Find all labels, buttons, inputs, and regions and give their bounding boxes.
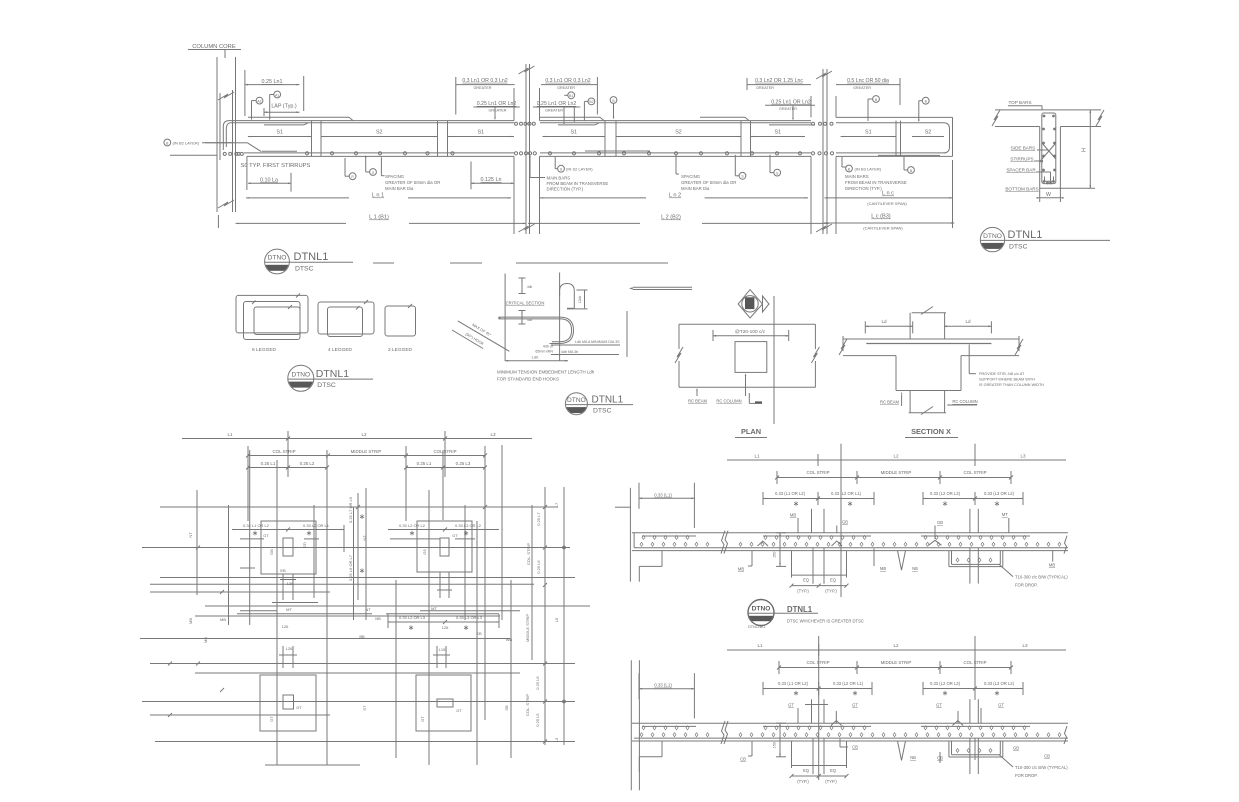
- plan mid NT MT dim lines: [237, 613, 372, 615]
- svg-text:ST: ST: [362, 705, 367, 711]
- svg-text:S1: S1: [570, 130, 577, 136]
- plan corner mark: [748, 393, 750, 403]
- column footprint BR: [416, 675, 471, 731]
- section x column below: [909, 391, 911, 413]
- svg-text:S0 TYP. FIRST STIRRUPS: S0 TYP. FIRST STIRRUPS: [241, 163, 311, 169]
- svg-text:B1: B1: [569, 94, 573, 98]
- detail1 slab hatch bottom: [640, 542, 643, 546]
- tag S below beam: [370, 169, 377, 176]
- svg-text:MINIMUM TENSION EMBEDMENT LENG: MINIMUM TENSION EMBEDMENT LENGTH Ldh: [497, 370, 595, 375]
- svg-text:150: 150: [773, 742, 777, 748]
- svg-text:IS GREATER THAN COLUMN WIDTH: IS GREATER THAN COLUMN WIDTH: [979, 383, 1044, 387]
- bent-up bar at support C1: [233, 142, 248, 144]
- detail2 top bar lines: [642, 725, 696, 727]
- svg-text:LAP (Typ.): LAP (Typ.): [271, 104, 297, 110]
- svg-text:DTNL1: DTNL1: [316, 368, 349, 380]
- svg-text:G5: G5: [422, 549, 427, 555]
- svg-text:0.33 (L2 OR L1): 0.33 (L2 OR L1): [831, 491, 862, 496]
- svg-text:GT: GT: [788, 703, 794, 708]
- detail1 col A bars: [811, 509, 813, 533]
- dim H: [1060, 187, 1095, 189]
- tag A1: [274, 91, 281, 98]
- tag IN S2 LAYER: [558, 165, 565, 172]
- svg-text:@T20-100 c/c: @T20-100 c/c: [735, 329, 766, 335]
- detail1 slab break: [721, 531, 728, 554]
- column C2: [513, 88, 515, 121]
- svg-text:L3: L3: [554, 737, 559, 742]
- svg-text:Ldh: Ldh: [532, 355, 539, 360]
- svg-text:0.3 Ln1 OR 0.3 Ln2: 0.3 Ln1 OR 0.3 Ln2: [462, 78, 507, 84]
- T-section stem: [1039, 127, 1041, 189]
- svg-text:PROVIDE STIR.-N8 c/c AT: PROVIDE STIR.-N8 c/c AT: [979, 372, 1025, 376]
- svg-text:RC BEAM: RC BEAM: [880, 400, 900, 405]
- svg-text:0.25 L2: 0.25 L2: [300, 461, 315, 466]
- svg-text:GT: GT: [263, 533, 269, 538]
- svg-text:(TYP.): (TYP.): [797, 589, 809, 594]
- svg-text:S1: S1: [276, 130, 283, 136]
- svg-text:WB: WB: [506, 637, 513, 642]
- svg-text:Ld: Ld: [965, 319, 971, 324]
- svg-text:DTNO: DTNO: [752, 606, 771, 613]
- T-section bar dots: [1043, 115, 1045, 117]
- svg-text:0.33 (L3 OR L2): 0.33 (L3 OR L2): [984, 681, 1015, 686]
- svg-text:0.33 (L2 OR L1): 0.33 (L2 OR L1): [833, 681, 864, 686]
- svg-text:∗: ∗: [793, 689, 799, 698]
- svg-text:S1: S1: [865, 130, 872, 136]
- detail2 col A bar cap: [805, 704, 828, 706]
- svg-text:NB: NB: [912, 566, 918, 571]
- svg-text:NT: NT: [362, 535, 367, 541]
- svg-text:GREATER: GREATER: [545, 109, 563, 113]
- svg-text:L6: L6: [554, 617, 559, 622]
- svg-text:0.25 L6 OR L7: 0.25 L6 OR L7: [348, 554, 353, 581]
- detail2 slab hatch top: [642, 726, 645, 730]
- T-section spacer bar: [1045, 177, 1054, 182]
- svg-text:MAIN BAR Dia: MAIN BAR Dia: [385, 186, 414, 191]
- column footprint BL: [260, 675, 316, 731]
- svg-text:EB: EB: [280, 568, 286, 573]
- svg-text:GB: GB: [1013, 746, 1019, 751]
- detail2 below-slab depth dim: [779, 723, 781, 757]
- svg-text:0.25 L6: 0.25 L6: [536, 560, 541, 574]
- svg-text:∗: ∗: [409, 529, 415, 538]
- svg-text:EB: EB: [476, 631, 482, 636]
- svg-text:W: W: [1046, 192, 1051, 198]
- stirrup 2 legged: [385, 306, 416, 336]
- svg-text:CB: CB: [740, 757, 746, 762]
- bottom bars: [244, 152, 514, 154]
- svg-text:0.10 La: 0.10 La: [260, 177, 278, 183]
- tag B over cantilever: [873, 96, 880, 103]
- hook 180 top: [560, 284, 575, 309]
- svg-text:GREATER: GREATER: [488, 109, 506, 113]
- svg-text:L1: L1: [227, 432, 233, 437]
- svg-text:126: 126: [282, 624, 289, 629]
- svg-text:GREATER: GREATER: [853, 86, 871, 90]
- svg-text:GREATER: GREATER: [557, 86, 575, 90]
- svg-text:(TYP.): (TYP.): [825, 779, 837, 784]
- svg-text:L3: L3: [490, 432, 496, 437]
- detail2 slab break: [721, 721, 728, 744]
- detail1 top bar lines: [642, 535, 696, 537]
- svg-text:2 LEGGED: 2 LEGGED: [388, 347, 413, 353]
- svg-text:COL. STRIP: COL. STRIP: [525, 694, 530, 717]
- svg-text:COL STRIP: COL STRIP: [806, 660, 829, 665]
- detail1 below-slab depth dim: [779, 533, 781, 567]
- svg-text:∗: ∗: [359, 512, 365, 521]
- svg-text:GT: GT: [420, 716, 425, 722]
- double-line arrow: [633, 286, 692, 288]
- svg-text:S2: S2: [925, 130, 932, 136]
- detail2 left step: [661, 741, 663, 757]
- svg-text:(IN B2 LAYER): (IN B2 LAYER): [173, 141, 200, 146]
- svg-text:DTNO: DTNO: [268, 255, 287, 262]
- svg-text:RC COLUMN: RC COLUMN: [716, 399, 741, 404]
- svg-text:SIDE BARS: SIDE BARS: [1011, 146, 1036, 151]
- detail1 EQ dim: [791, 551, 793, 578]
- svg-text:FROM BEAM IN TRANSVERSE: FROM BEAM IN TRANSVERSE: [845, 180, 907, 185]
- svg-text:COL STRIP: COL STRIP: [806, 470, 829, 475]
- svg-text:T10-300 c/c B/W (TYPICAL): T10-300 c/c B/W (TYPICAL): [1015, 575, 1068, 580]
- svg-text:GREATER: GREATER: [473, 86, 491, 90]
- svg-text:L1: L1: [754, 454, 760, 459]
- svg-text:L3: L3: [1022, 643, 1028, 648]
- svg-text:MIDDLE STRIP: MIDDLE STRIP: [351, 449, 382, 454]
- svg-text:L n 1: L n 1: [372, 193, 384, 199]
- beam outline: [223, 121, 514, 150]
- svg-text:EQ: EQ: [830, 578, 837, 583]
- svg-text:0.33 L3 OR L2: 0.33 L3 OR L2: [455, 523, 482, 528]
- svg-text:DTNL1: DTNL1: [294, 251, 329, 263]
- svg-text:MB: MB: [738, 567, 744, 572]
- svg-text:(TYP.): (TYP.): [825, 589, 837, 594]
- svg-text:MAIN BARS: MAIN BARS: [845, 174, 869, 179]
- detail2 col B bars above: [969, 699, 971, 723]
- svg-text:∗: ∗: [252, 529, 258, 538]
- svg-text:L2: L2: [361, 432, 367, 437]
- svg-text:∗: ∗: [994, 499, 1000, 508]
- svg-text:B2: B2: [589, 100, 593, 104]
- svg-text:∗: ∗: [847, 499, 853, 508]
- svg-text:∗: ∗: [942, 499, 948, 508]
- svg-text:CB: CB: [852, 745, 858, 750]
- svg-text:CRITICAL SECTION: CRITICAL SECTION: [506, 301, 545, 306]
- svg-text:DTNO: DTNO: [567, 397, 586, 404]
- svg-text:DIRECTION (TYP.): DIRECTION (TYP.): [547, 187, 584, 192]
- detail1 col B bars above: [969, 509, 971, 533]
- svg-text:L 1 (B1): L 1 (B1): [369, 215, 389, 221]
- svg-text:SECTION X: SECTION X: [911, 427, 951, 436]
- svg-text:∗: ∗: [463, 623, 469, 632]
- svg-text:∗: ∗: [852, 689, 858, 698]
- svg-text:(IN B3 LAYER): (IN B3 LAYER): [855, 167, 882, 172]
- svg-text:SPACER BAR: SPACER BAR: [1006, 168, 1036, 173]
- svg-text:FOR DROP.: FOR DROP.: [1015, 583, 1038, 588]
- svg-text:DTNO: DTNO: [291, 372, 310, 379]
- svg-text:BOTTOM BARS: BOTTOM BARS: [1005, 187, 1038, 192]
- svg-text:0.25 Ln1 OR Ln2: 0.25 Ln1 OR Ln2: [477, 101, 517, 107]
- svg-text:∗: ∗: [359, 566, 365, 575]
- plan grid verticals: [196, 490, 198, 595]
- svg-text:S1: S1: [774, 130, 781, 136]
- svg-text:150: 150: [773, 552, 777, 558]
- svg-text:(CANTILEVER SPAN): (CANTILEVER SPAN): [867, 201, 907, 206]
- svg-text:L c (B3): L c (B3): [871, 214, 891, 220]
- svg-text:0.33 (L1 OR L2): 0.33 (L1 OR L2): [775, 491, 806, 496]
- svg-text:DTSC WHICHEVER IS GREATER DTSC: DTSC WHICHEVER IS GREATER DTSC: [787, 619, 864, 624]
- svg-text:COL. STRIP: COL. STRIP: [526, 543, 531, 566]
- svg-text:MIDDLE STRIP: MIDDLE STRIP: [881, 660, 912, 665]
- svg-text:Ld: Ld: [881, 319, 887, 324]
- hook right boundary line: [626, 311, 628, 357]
- svg-text:T10-300 c/c B/W (TYPICAL): T10-300 c/c B/W (TYPICAL): [1015, 765, 1068, 770]
- svg-text:0.25 L3: 0.25 L3: [456, 461, 471, 466]
- svg-text:S2: S2: [376, 130, 383, 136]
- svg-text:12db: 12db: [578, 296, 582, 304]
- svg-text:COL STRIP: COL STRIP: [963, 470, 986, 475]
- svg-text:MT: MT: [1002, 512, 1008, 517]
- stirrup zone separators: [311, 121, 313, 157]
- column C3: [810, 96, 812, 117]
- svg-text:DTNL1: DTNL1: [592, 394, 624, 405]
- column footprint TR: [417, 521, 472, 572]
- tag S under span2 b: [774, 169, 781, 176]
- plan right dim strip outer: [563, 487, 565, 745]
- svg-text:(CANTILEVER SPAN): (CANTILEVER SPAN): [863, 226, 903, 231]
- svg-text:CB: CB: [1044, 754, 1050, 759]
- svg-text:ED: ED: [302, 542, 307, 548]
- dim 12db vertical: [584, 290, 586, 308]
- svg-text:MB: MB: [203, 637, 208, 643]
- detail2 col A bars: [811, 699, 813, 723]
- svg-text:GT: GT: [269, 716, 274, 722]
- svg-text:FOR STANDARD END HOOKS: FOR STANDARD END HOOKS: [497, 377, 559, 382]
- svg-text:COL STRIP: COL STRIP: [272, 449, 295, 454]
- svg-text:PLAN: PLAN: [741, 427, 761, 436]
- svg-text:GT: GT: [936, 703, 942, 708]
- tag below cantilever: [908, 167, 915, 174]
- svg-text:GT: GT: [452, 533, 458, 538]
- svg-text:DTSC: DTSC: [593, 408, 612, 415]
- svg-text:L15: L15: [439, 647, 446, 652]
- svg-text:MIDDLE STRIP: MIDDLE STRIP: [881, 470, 912, 475]
- support lap bars above beam: [248, 116, 349, 118]
- stirrup 4 legged: [318, 302, 374, 334]
- svg-text:L3: L3: [1020, 454, 1026, 459]
- svg-text:0.33 L3 OR L3: 0.33 L3 OR L3: [456, 615, 483, 620]
- detail1 bent bar V: [898, 551, 902, 571]
- svg-text:A1: A1: [275, 93, 279, 97]
- svg-text:GT: GT: [296, 705, 302, 710]
- reference dashes: [373, 262, 394, 264]
- svg-text:0.5 Lnc OR 50 dia: 0.5 Lnc OR 50 dia: [847, 78, 889, 84]
- svg-text:0.3 Ln2 OR 1.25 Lnc: 0.3 Ln2 OR 1.25 Lnc: [755, 78, 803, 84]
- svg-text:0.33 (L2 OR L3): 0.33 (L2 OR L3): [930, 491, 961, 496]
- plan ladder marks at BL BR: [282, 646, 284, 668]
- svg-text:MT: MT: [431, 606, 437, 611]
- svg-text:GREATER: GREATER: [756, 86, 774, 90]
- plan ladder marks below squares: [282, 574, 284, 600]
- svg-text:EQ: EQ: [803, 768, 810, 773]
- section x column above: [909, 313, 911, 339]
- hook mini-dim 4db lower: [521, 311, 523, 325]
- detail1 chair mark left: [758, 541, 769, 546]
- tag A2: [256, 97, 263, 104]
- column footprint TL: [261, 521, 316, 574]
- svg-text:GREATER OF 50mm dia OR: GREATER OF 50mm dia OR: [681, 180, 736, 185]
- detail1 drop panel at col B: [948, 551, 950, 567]
- stirrup 6 legged: [236, 295, 308, 333]
- svg-text:0.3 Ln1 OR 0.3 Ln2: 0.3 Ln1 OR 0.3 Ln2: [545, 78, 590, 84]
- svg-text:DTNO/BO: DTNO/BO: [748, 625, 765, 629]
- tag B over C2: [568, 92, 575, 99]
- svg-text:0.125 Ln: 0.125 Ln: [481, 177, 502, 183]
- svg-text:L n 2: L n 2: [669, 193, 681, 199]
- plan column square: [735, 342, 767, 373]
- hook detail face lines: [504, 274, 506, 362]
- tag B2 over C2 right: [588, 98, 595, 105]
- detail1 tall grid verticals: [840, 444, 842, 597]
- svg-text:∗: ∗: [942, 689, 948, 698]
- svg-text:65mm MIN: 65mm MIN: [535, 350, 553, 354]
- svg-text:FROM BEAM IN TRANSVERSE: FROM BEAM IN TRANSVERSE: [547, 181, 609, 186]
- plan beam outline: [679, 323, 815, 325]
- detail2 drop panel at col B: [948, 741, 950, 757]
- svg-text:MB: MB: [1049, 563, 1055, 568]
- svg-text:L26: L26: [286, 646, 293, 651]
- svg-text:DTSC: DTSC: [1009, 243, 1028, 250]
- detail2 slab outline: [632, 722, 1068, 724]
- detail1 left step: [661, 551, 663, 567]
- svg-text:STIRRUPS: STIRRUPS: [1010, 157, 1033, 162]
- svg-text:RC BEAM: RC BEAM: [688, 399, 708, 404]
- svg-text:EQ: EQ: [830, 768, 837, 773]
- svg-text:0.33 L2 OR L1: 0.33 L2 OR L1: [303, 523, 330, 528]
- svg-text:∗: ∗: [306, 529, 312, 538]
- svg-text:L1: L1: [757, 643, 763, 648]
- detail2 right end break: [1064, 726, 1067, 744]
- svg-text:Ldb MA A MINIMUM DIA 3S: Ldb MA A MINIMUM DIA 3S: [575, 340, 620, 344]
- note IN B2 LAYER: [164, 139, 171, 146]
- svg-text:DTNO: DTNO: [983, 233, 1002, 240]
- svg-text:0.33 (L3 OR L2): 0.33 (L3 OR L2): [984, 491, 1015, 496]
- svg-text:SPACING: SPACING: [681, 174, 701, 179]
- svg-text:SB: SB: [504, 705, 509, 711]
- svg-text:GREATER OF 50mm dia OR: GREATER OF 50mm dia OR: [385, 180, 440, 185]
- svg-text:GB: GB: [842, 520, 848, 525]
- svg-text:(TYP.): (TYP.): [797, 779, 809, 784]
- section x slab: [843, 338, 1019, 340]
- detail2 left wall: [630, 660, 632, 790]
- svg-text:∗: ∗: [463, 529, 469, 538]
- svg-text:L2: L2: [893, 454, 899, 459]
- svg-text:FOR DROP.: FOR DROP.: [1015, 773, 1038, 778]
- svg-text:∗: ∗: [408, 623, 414, 632]
- detail1 slab hatch top: [642, 535, 645, 539]
- svg-text:S1: S1: [477, 130, 484, 136]
- svg-text:L2: L2: [893, 643, 899, 648]
- svg-text:0.33 L2 OR L3: 0.33 L2 OR L3: [399, 615, 426, 620]
- tag B at cantilever end: [922, 97, 929, 104]
- svg-text:NT: NT: [188, 532, 193, 538]
- svg-text:4 LEGGED: 4 LEGGED: [328, 347, 353, 353]
- north symbol: [738, 290, 762, 318]
- svg-text:RC COLUMN: RC COLUMN: [952, 399, 977, 404]
- svg-text:TOP BARS: TOP BARS: [1008, 100, 1031, 105]
- svg-text:GB: GB: [937, 520, 943, 525]
- svg-text:0.25 L1: 0.25 L1: [417, 461, 432, 466]
- svg-text:0.33 (L1): 0.33 (L1): [654, 492, 672, 497]
- svg-text:4db: 4db: [527, 285, 533, 289]
- svg-text:136: 136: [287, 581, 294, 586]
- svg-text:0.33 (L2 OR L3): 0.33 (L2 OR L3): [930, 681, 961, 686]
- detail2 slab hatch bottom: [640, 733, 643, 737]
- detail1 left wall: [629, 488, 631, 582]
- svg-text:BB: BB: [359, 634, 365, 639]
- svg-text:GREATER: GREATER: [779, 107, 797, 111]
- dim W: [1039, 188, 1041, 202]
- svg-text:S2: S2: [675, 130, 682, 136]
- svg-text:0.25 L7 OR L9: 0.25 L7 OR L9: [348, 496, 353, 523]
- svg-text:MT: MT: [286, 607, 292, 612]
- svg-text:L7: L7: [554, 502, 559, 507]
- detail2 EQ dim: [791, 741, 793, 768]
- svg-text:(IN S2 LAYER): (IN S2 LAYER): [566, 167, 593, 172]
- plan dim extension verticals: [247, 446, 249, 521]
- svg-text:MB: MB: [220, 617, 226, 622]
- section x beam stem: [895, 356, 897, 391]
- svg-text:0.33 L1 OR L2: 0.33 L1 OR L2: [243, 523, 270, 528]
- svg-text:4db MA 3b: 4db MA 3b: [561, 350, 578, 354]
- T-section slab: [995, 109, 1101, 111]
- plan grid horizontals: [160, 506, 558, 508]
- svg-text:NB: NB: [375, 616, 381, 621]
- T-section cross bracing: [1042, 143, 1056, 159]
- svg-text:MAIN BARS: MAIN BARS: [547, 176, 571, 181]
- plan section line: [773, 296, 775, 424]
- transverse beam line left of C1: [170, 154, 217, 156]
- svg-text:∗: ∗: [793, 499, 799, 508]
- hook mini-dim 4db upper: [521, 278, 523, 294]
- svg-text:0.25 Ln1 OR Ln2: 0.25 Ln1 OR Ln2: [771, 99, 811, 105]
- bottom bar circles: [223, 152, 226, 155]
- svg-text:0.33 (L1 OR L2): 0.33 (L1 OR L2): [778, 681, 809, 686]
- svg-text:MAIN BAR Dia: MAIN BAR Dia: [681, 186, 710, 191]
- svg-text:DIRECTION (TYP.): DIRECTION (TYP.): [845, 186, 882, 191]
- svg-text:DTNL1: DTNL1: [787, 605, 813, 614]
- detail2 bent bar V: [898, 741, 902, 761]
- svg-text:0.33 L2 OR L2: 0.33 L2 OR L2: [399, 523, 426, 528]
- svg-text:L 2 (B2): L 2 (B2): [661, 215, 681, 221]
- top bar with end hooks: [226, 123, 514, 147]
- svg-text:H: H: [1082, 148, 1088, 152]
- tag R below beam: [349, 173, 356, 180]
- svg-text:0.25 L7: 0.25 L7: [536, 512, 541, 526]
- svg-text:NB: NB: [910, 755, 916, 760]
- svg-text:NT: NT: [365, 607, 371, 612]
- tag S under span2 a: [739, 172, 746, 179]
- plan intersection ticks: [168, 662, 172, 666]
- svg-text:DTSC: DTSC: [295, 265, 314, 272]
- svg-text:MIDDLE STRIP: MIDDLE STRIP: [525, 614, 530, 642]
- svg-text:MB: MB: [880, 566, 886, 571]
- main hook bar: [499, 316, 561, 318]
- svg-text:126: 126: [442, 625, 449, 630]
- svg-text:MB: MB: [188, 618, 193, 624]
- svg-text:L n c: L n c: [882, 191, 894, 197]
- detail1 slab outline: [632, 532, 1068, 534]
- top bar circles at columns: [515, 122, 518, 125]
